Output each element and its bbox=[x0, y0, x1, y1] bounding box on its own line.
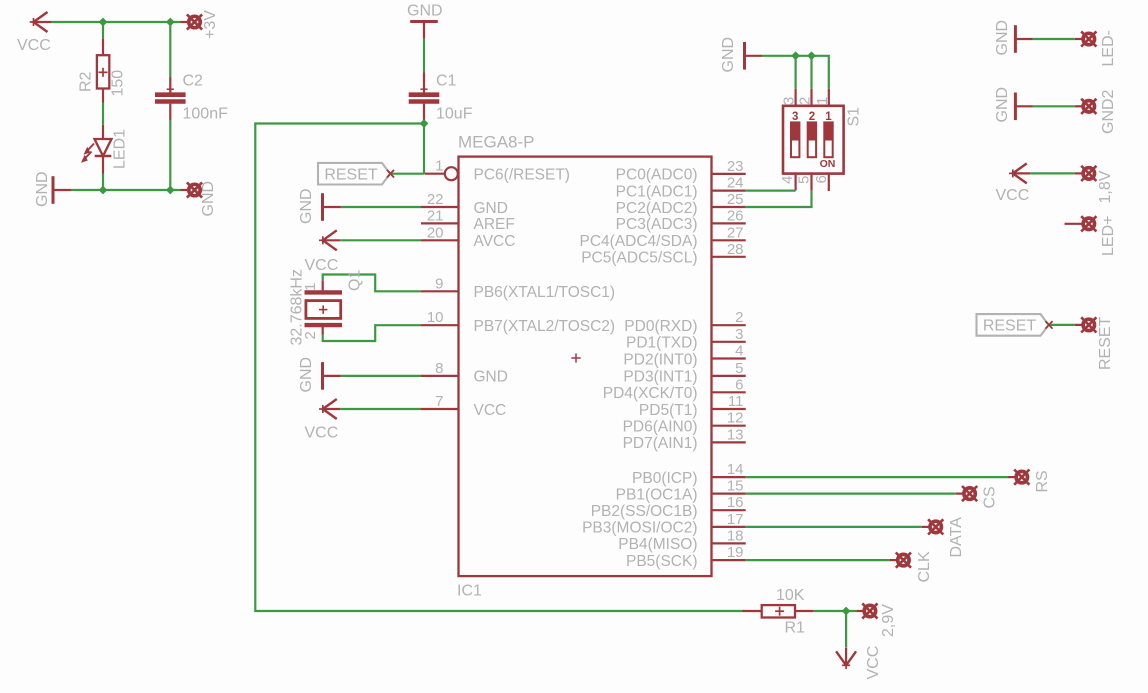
flag RESET right bbox=[977, 314, 1053, 336]
svg-text:25: 25 bbox=[727, 191, 744, 208]
S1 pin5 stub bottom bbox=[810, 174, 812, 191]
svg-text:23: 23 bbox=[727, 158, 744, 175]
LED1 stub top bbox=[102, 125, 104, 139]
pad 1,8V bbox=[1081, 166, 1096, 181]
svg-text:S1: S1 bbox=[846, 107, 863, 127]
ground symbol S1 bbox=[743, 42, 746, 70]
pad LED- stub bbox=[1075, 38, 1082, 40]
S1 pin6 stub bottom bbox=[828, 174, 830, 191]
wire VCC to +3V pad bbox=[51, 21, 181, 23]
pin 1 wire bbox=[425, 173, 445, 175]
pin8 gnd stub bbox=[323, 375, 341, 377]
C1 gnd stub bbox=[423, 22, 425, 39]
svg-text:PD6(AIN0): PD6(AIN0) bbox=[623, 419, 698, 436]
svg-text:5: 5 bbox=[796, 176, 813, 184]
LED- gnd stub bbox=[1015, 38, 1033, 40]
pin 5 stub bbox=[712, 375, 746, 377]
pad GND stub bbox=[181, 189, 189, 191]
svg-text:GND: GND bbox=[407, 3, 443, 20]
svg-text:PB2(SS/OC1B): PB2(SS/OC1B) bbox=[591, 503, 698, 520]
wire reset to pad bbox=[1051, 324, 1075, 326]
capacitor C2 stub bottom bbox=[169, 104, 171, 121]
svg-text:PB6(XTAL1/TOSC1): PB6(XTAL1/TOSC1) bbox=[474, 284, 616, 301]
pad +3V bbox=[187, 14, 202, 29]
Q1 pin2 stub bbox=[322, 325, 324, 334]
svg-text:GND: GND bbox=[298, 188, 315, 224]
svg-text:10uF: 10uF bbox=[436, 106, 473, 123]
svg-text:19: 19 bbox=[727, 544, 744, 561]
node junction VCC/R2 bbox=[99, 18, 108, 27]
svg-text:PD3(INT1): PD3(INT1) bbox=[623, 369, 697, 386]
power VCC arrow pin7 bbox=[319, 399, 340, 419]
S1 pin3 stub top bbox=[794, 89, 796, 106]
pad LED+ stub bbox=[1065, 223, 1083, 225]
wire pin14 to RS pad bbox=[746, 476, 1008, 478]
pin 19 stub bbox=[712, 559, 746, 561]
svg-text:PC3(ADC3): PC3(ADC3) bbox=[616, 216, 698, 233]
svg-text:GND: GND bbox=[994, 87, 1011, 123]
svg-text:1,8V: 1,8V bbox=[1097, 170, 1114, 203]
svg-text:11: 11 bbox=[728, 393, 744, 410]
pad CS bbox=[962, 486, 977, 501]
node junction C2/gnd bbox=[166, 186, 175, 195]
wire pin15 to CS pad bbox=[746, 493, 956, 495]
LED1 stub bottom bbox=[102, 156, 104, 174]
crystal Q1 plate top bbox=[305, 290, 343, 294]
IC1 body bbox=[459, 157, 712, 576]
svg-text:IC1: IC1 bbox=[457, 583, 482, 600]
svg-text:PD0(RXD): PD0(RXD) bbox=[624, 318, 697, 335]
S1 pin2 stub top bbox=[810, 89, 812, 106]
pin 7 stub bbox=[421, 408, 459, 410]
svg-text:3: 3 bbox=[735, 326, 743, 343]
pad CS stub bbox=[956, 493, 963, 495]
ground symbol C1 bbox=[410, 20, 438, 23]
svg-text:GND2: GND2 bbox=[1100, 89, 1117, 134]
svg-text:VCC: VCC bbox=[996, 187, 1030, 204]
svg-text:VCC: VCC bbox=[17, 37, 51, 54]
svg-text:13: 13 bbox=[727, 426, 744, 443]
svg-text:PC1(ADC1): PC1(ADC1) bbox=[616, 183, 698, 200]
pin 11 stub bbox=[712, 408, 746, 410]
node junction VCC/C2 bbox=[166, 18, 175, 27]
svg-text:28: 28 bbox=[727, 241, 744, 258]
wire junction to VCC down bbox=[845, 611, 847, 648]
pin 23 stub bbox=[712, 173, 746, 175]
svg-text:10K: 10K bbox=[776, 587, 805, 604]
wire S1 pin2 drop bbox=[810, 56, 812, 89]
svg-text:RESET: RESET bbox=[1097, 316, 1114, 370]
svg-text:DATA: DATA bbox=[948, 517, 965, 558]
svg-text:GND: GND bbox=[994, 20, 1011, 56]
pin 3 stub bbox=[712, 341, 746, 343]
svg-text:GND: GND bbox=[34, 171, 51, 207]
capacitor C1 bbox=[409, 95, 440, 102]
svg-text:ON: ON bbox=[820, 158, 836, 170]
svg-text:15: 15 bbox=[727, 478, 744, 495]
pad RS bbox=[1014, 470, 1029, 485]
flag RESET left bbox=[318, 163, 394, 185]
pad DATA stub bbox=[922, 526, 929, 528]
svg-text:C2: C2 bbox=[183, 73, 204, 90]
svg-text:24: 24 bbox=[727, 175, 744, 192]
svg-text:PB3(MOSI/OC2): PB3(MOSI/OC2) bbox=[582, 520, 697, 537]
svg-text:18: 18 bbox=[727, 527, 744, 544]
svg-text:12: 12 bbox=[727, 410, 744, 427]
pin 8 stub bbox=[421, 375, 459, 377]
svg-text:AVCC: AVCC bbox=[474, 233, 516, 250]
gnd rail wire bbox=[71, 189, 181, 191]
GND2 gnd stub bbox=[1015, 105, 1033, 107]
svg-text:GND: GND bbox=[474, 200, 508, 217]
pin22 gnd stub bbox=[323, 206, 341, 208]
pin 20 stub bbox=[421, 239, 459, 241]
pad GND2 bbox=[1081, 99, 1096, 114]
svg-text:1: 1 bbox=[814, 97, 831, 105]
long wire to R1 bbox=[255, 124, 742, 612]
ground symbol pin22 bbox=[321, 193, 324, 221]
power AVCC arrow bbox=[319, 230, 340, 250]
wire vcc to pin7 bbox=[340, 408, 421, 410]
wire pin24 to S1 pin4 bbox=[746, 190, 796, 192]
capacitor C2 origin cross bbox=[167, 86, 174, 93]
svg-text:VCC: VCC bbox=[305, 257, 339, 274]
svg-text:2: 2 bbox=[809, 111, 815, 123]
S1 gnd stub bbox=[745, 55, 763, 57]
svg-text:27: 27 bbox=[727, 224, 744, 241]
pin 13 stub bbox=[712, 441, 746, 443]
wire gnd bar stub bbox=[53, 189, 71, 191]
IC1 origin cross bbox=[571, 353, 580, 362]
svg-text:PD1(TXD): PD1(TXD) bbox=[626, 335, 697, 352]
svg-text:PB4(MISO): PB4(MISO) bbox=[618, 536, 697, 553]
svg-text:9: 9 bbox=[435, 275, 443, 292]
wire pin17 to DATA pad bbox=[746, 526, 922, 528]
Q1 pin1 stub bbox=[322, 280, 324, 292]
pad LED- bbox=[1081, 31, 1096, 46]
ground symbol LED- bbox=[1014, 25, 1017, 53]
pad RS stub bbox=[1008, 476, 1015, 478]
svg-text:150: 150 bbox=[110, 70, 127, 97]
S1 slider 2 bbox=[808, 122, 816, 157]
resistor R2 origin cross bbox=[99, 68, 108, 77]
capacitor C1 stub top bbox=[423, 73, 425, 93]
svg-text:22: 22 bbox=[427, 191, 444, 208]
node junction R1/VCC bbox=[842, 607, 851, 616]
svg-text:5: 5 bbox=[735, 360, 743, 377]
S1 pin4 stub bottom bbox=[794, 174, 796, 191]
power net VCC symbol bbox=[30, 12, 51, 32]
pin 17 stub bbox=[712, 526, 746, 528]
wire junction to R2 bbox=[102, 22, 104, 39]
pad GND top-left bbox=[187, 182, 202, 197]
svg-text:3: 3 bbox=[792, 111, 798, 123]
capacitor C1 stub bottom bbox=[423, 104, 425, 120]
svg-text:PB7(XTAL2/TOSC2): PB7(XTAL2/TOSC2) bbox=[474, 318, 616, 335]
pad RESET stub bbox=[1075, 324, 1082, 326]
svg-text:VCC: VCC bbox=[474, 402, 507, 419]
S1 pin1 stub top bbox=[828, 89, 830, 106]
svg-text:PC2(ADC2): PC2(ADC2) bbox=[616, 200, 698, 217]
svg-text:MEGA8-P: MEGA8-P bbox=[458, 133, 535, 152]
svg-text:PB5(SCK): PB5(SCK) bbox=[626, 553, 698, 570]
power VCC arrow down bbox=[836, 648, 856, 669]
pad GND2 stub bbox=[1075, 105, 1082, 107]
svg-text:RS: RS bbox=[1034, 470, 1051, 492]
wire gnd to LED- pad bbox=[1033, 38, 1075, 40]
pin 9 stub bbox=[421, 290, 459, 292]
resistor R1 bbox=[762, 605, 795, 617]
resistor R2 stub top bbox=[102, 39, 104, 56]
node junction S1 pin3 bbox=[791, 51, 800, 60]
svg-text:PD7(AIN1): PD7(AIN1) bbox=[623, 435, 698, 452]
resistor R2 stub bottom bbox=[102, 89, 104, 103]
svg-text:6: 6 bbox=[813, 175, 830, 183]
capacitor C1 origin cross bbox=[420, 86, 427, 93]
svg-text:PB1(OC1A): PB1(OC1A) bbox=[616, 486, 698, 503]
svg-text:AREF: AREF bbox=[474, 216, 515, 233]
pad 2,9V stub bbox=[856, 610, 863, 612]
pin 12 stub bbox=[712, 425, 746, 427]
wire pin25 to S1 pin5 bbox=[746, 191, 812, 207]
wire Q1 pin2 to pin10 bbox=[323, 325, 421, 341]
svg-text:3: 3 bbox=[781, 97, 798, 105]
pin 27 stub bbox=[712, 239, 746, 241]
svg-text:100nF: 100nF bbox=[183, 106, 229, 123]
svg-text:1: 1 bbox=[435, 158, 443, 175]
crystal Q1 plate bottom bbox=[305, 323, 343, 327]
S1 slider 1 bbox=[824, 122, 832, 157]
svg-text:8: 8 bbox=[435, 360, 443, 377]
svg-text:4: 4 bbox=[735, 343, 743, 360]
svg-text:Q1: Q1 bbox=[347, 270, 364, 291]
resistor R1 stub right bbox=[795, 610, 814, 612]
svg-text:C1: C1 bbox=[436, 73, 457, 90]
LED1 diode bbox=[81, 139, 112, 163]
svg-text:1: 1 bbox=[825, 111, 832, 123]
pin 6 stub bbox=[712, 391, 746, 393]
svg-text:LED1: LED1 bbox=[112, 129, 129, 169]
pin 18 stub bbox=[712, 542, 746, 544]
svg-text:2: 2 bbox=[797, 97, 814, 105]
svg-text:LED-: LED- bbox=[1100, 30, 1117, 66]
svg-text:+3V: +3V bbox=[202, 10, 219, 39]
svg-text:PC0(ADC0): PC0(ADC0) bbox=[616, 167, 698, 184]
svg-text:6: 6 bbox=[735, 376, 743, 393]
svg-text:2: 2 bbox=[735, 309, 743, 326]
wire C2 to gnd rail bbox=[169, 120, 171, 190]
svg-text:CS: CS bbox=[982, 486, 999, 508]
pin 22 stub bbox=[421, 206, 459, 208]
svg-text:PD2(INT0): PD2(INT0) bbox=[623, 351, 697, 368]
svg-text:17: 17 bbox=[727, 511, 744, 528]
capacitor C2 stub top bbox=[169, 77, 171, 93]
svg-text:GND: GND bbox=[720, 37, 737, 73]
svg-text:26: 26 bbox=[727, 207, 744, 224]
pad CLK stub bbox=[890, 559, 897, 561]
ground symbol pin8 bbox=[321, 362, 324, 390]
svg-text:32.768kHz: 32.768kHz bbox=[289, 269, 306, 346]
resistor R2 bbox=[97, 55, 109, 88]
node junction S1 pin2 bbox=[807, 51, 816, 60]
pin 4 stub bbox=[712, 357, 746, 359]
pin 25 stub bbox=[712, 206, 746, 208]
svg-text:R1: R1 bbox=[785, 620, 806, 637]
wire S1 pin3 drop bbox=[794, 56, 796, 89]
wire LED1 to gnd rail bbox=[102, 174, 104, 191]
pin 28 stub bbox=[712, 256, 746, 258]
wire vcc to 1,8V pad bbox=[1030, 172, 1075, 174]
wire R2 to LED1 bbox=[102, 103, 104, 125]
svg-text:LED+: LED+ bbox=[1100, 216, 1117, 256]
capacitor C2 wire top bbox=[169, 22, 171, 77]
pin 26 stub bbox=[712, 222, 746, 224]
svg-text:16: 16 bbox=[727, 494, 744, 511]
svg-text:10: 10 bbox=[427, 309, 444, 326]
node junction LED/gnd bbox=[99, 186, 108, 195]
pin 10 stub bbox=[421, 324, 459, 326]
pin 15 stub bbox=[712, 493, 746, 495]
wire gnd to GND2 pad bbox=[1033, 105, 1075, 107]
svg-text:CLK: CLK bbox=[916, 551, 933, 582]
ground symbol left bbox=[52, 176, 55, 204]
svg-text:21: 21 bbox=[427, 207, 444, 224]
svg-text:7: 7 bbox=[435, 393, 443, 410]
pad RESET bbox=[1081, 317, 1096, 332]
pin 2 stub bbox=[712, 324, 746, 326]
pin 16 stub bbox=[712, 509, 746, 511]
wire gnd to pin22 bbox=[341, 206, 421, 208]
wire gnd to C1 bbox=[423, 39, 425, 73]
pin 24 stub bbox=[712, 190, 746, 192]
svg-text:PC4(ADC4/SDA): PC4(ADC4/SDA) bbox=[580, 233, 698, 250]
svg-text:GND: GND bbox=[200, 181, 217, 217]
svg-text:PD4(XCK/T0): PD4(XCK/T0) bbox=[603, 385, 698, 402]
svg-text:PC6(/RESET): PC6(/RESET) bbox=[474, 167, 570, 184]
pad DATA bbox=[928, 519, 943, 534]
pin 1 inversion bubble bbox=[445, 167, 458, 180]
svg-text:RESET: RESET bbox=[324, 167, 378, 184]
svg-text:14: 14 bbox=[727, 461, 744, 478]
node junction C1/reset bbox=[420, 119, 429, 128]
crystal Q1 origin cross bbox=[319, 305, 327, 313]
svg-text:4: 4 bbox=[779, 176, 796, 184]
wire R1 to 2,9V pad bbox=[814, 610, 857, 612]
wire gnd to pin8 bbox=[341, 375, 421, 377]
pad LED+ bbox=[1081, 216, 1096, 231]
svg-text:2,9V: 2,9V bbox=[880, 604, 897, 637]
resistor R1 origin cross bbox=[775, 607, 784, 616]
svg-text:VCC: VCC bbox=[305, 425, 339, 442]
pad +3V stub bbox=[181, 21, 189, 23]
pad CLK bbox=[896, 553, 911, 568]
resistor R1 stub left bbox=[743, 610, 762, 612]
switch S1 body bbox=[783, 106, 844, 174]
capacitor C2 bbox=[155, 95, 186, 102]
svg-text:PD5(T1): PD5(T1) bbox=[639, 402, 698, 419]
svg-text:PC5(ADC5/SCL): PC5(ADC5/SCL) bbox=[581, 250, 697, 267]
wire C1 to reset net bbox=[423, 120, 425, 174]
pin 14 stub bbox=[712, 476, 746, 478]
svg-text:GND: GND bbox=[298, 357, 315, 393]
svg-text:GND: GND bbox=[474, 369, 508, 386]
pad 2,9V bbox=[862, 603, 877, 618]
pin 21 stub bbox=[421, 222, 459, 224]
wire Q1 pin1 to pin9 bbox=[323, 275, 421, 292]
S1 slider 3 bbox=[791, 122, 799, 157]
crystal Q1 body bbox=[306, 301, 341, 319]
pad 1,8V stub bbox=[1075, 172, 1082, 174]
wire vcc to pin20 bbox=[340, 239, 421, 241]
svg-text:RESET: RESET bbox=[983, 318, 1037, 335]
ground symbol GND2 bbox=[1014, 93, 1017, 121]
svg-text:PB0(ICP): PB0(ICP) bbox=[632, 470, 697, 487]
svg-text:20: 20 bbox=[427, 224, 444, 241]
wire pin19 to CLK pad bbox=[746, 559, 890, 561]
wire reset flag to pin1 bbox=[392, 173, 424, 175]
wire gnd to S1 pins bbox=[762, 56, 829, 89]
power VCC arrow 1,8V bbox=[1009, 163, 1030, 183]
svg-text:VCC: VCC bbox=[865, 646, 882, 680]
svg-text:R2: R2 bbox=[78, 71, 95, 92]
